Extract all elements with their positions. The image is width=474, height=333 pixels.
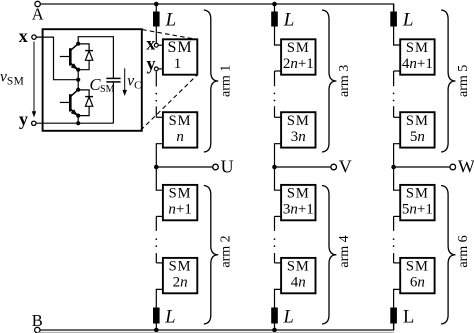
junction upper emitter node — [76, 68, 80, 72]
svg-text:arm 6: arm 6 — [456, 235, 471, 267]
junction top rail phase 2 — [272, 2, 277, 7]
svg-text:vC: vC — [127, 73, 141, 92]
svg-text:x: x — [19, 26, 28, 46]
svg-text:L: L — [283, 308, 294, 328]
junction midpoint phase 2 — [272, 165, 277, 170]
svg-text:4n+1: 4n+1 — [402, 56, 433, 72]
wire dash-dot arm 3 continuation — [274, 71, 276, 117]
wire inductor to SM 4n+1 input — [394, 27, 401, 46]
svg-text:5n: 5n — [410, 129, 425, 145]
submodule SM 4n — [281, 258, 315, 293]
arrow v_C — [122, 68, 127, 96]
submodule SM 5n — [400, 112, 434, 147]
node A terminal — [35, 1, 40, 6]
arrow v_SM — [32, 42, 36, 118]
svg-text:1: 1 — [174, 56, 182, 72]
brace arm 2 — [204, 186, 218, 325]
svg-text:arm 2: arm 2 — [219, 235, 234, 267]
node B terminal — [35, 327, 40, 332]
svg-text:L: L — [165, 9, 177, 30]
svg-text:A: A — [32, 5, 44, 24]
junction midpoint phase 1 — [154, 165, 159, 170]
svg-text:5n+1: 5n+1 — [402, 202, 433, 218]
terminal y of detail submodule — [32, 121, 36, 125]
callout dashed line bottom — [141, 75, 198, 130]
wire into SM 3n — [275, 116, 282, 118]
svg-text:3n: 3n — [291, 129, 306, 145]
terminal x of detail submodule — [32, 35, 36, 39]
wire SM 5n to midpoint junction to SM 5n+1 — [394, 144, 401, 191]
svg-text:arm 3: arm 3 — [337, 65, 352, 97]
svg-text:U: U — [221, 156, 234, 176]
wire phase 1 top rail to inductor — [155, 4, 157, 12]
junction lower emitter node — [76, 114, 80, 118]
wire inductor to SM 2n+1 input — [275, 27, 282, 46]
svg-text:B: B — [32, 311, 43, 330]
wire SM 5n+1 output stub — [394, 215, 401, 217]
capacitor C_SM — [78, 37, 120, 124]
junction top node — [76, 42, 80, 46]
svg-text:SM: SM — [287, 186, 310, 202]
svg-text:y: y — [147, 54, 156, 74]
wire x to midpoint — [36, 37, 78, 80]
diode D1 — [78, 44, 93, 70]
inductor L arm 4 — [271, 308, 294, 328]
wire bottom DC rail — [40, 324, 394, 331]
svg-text:L: L — [403, 308, 414, 328]
svg-text:SM: SM — [287, 113, 310, 129]
wire top DC rail — [40, 4, 393, 12]
submodule SM 5n+1 — [400, 185, 434, 220]
wire inductor to bottom rail phase 3 — [393, 324, 395, 331]
brace arm 4 — [322, 186, 336, 325]
submodule SM n+1 — [163, 185, 197, 220]
svg-text:vSM: vSM — [0, 68, 24, 87]
svg-text:V: V — [339, 156, 352, 176]
svg-text:x: x — [146, 34, 155, 54]
svg-text:2n: 2n — [173, 275, 188, 291]
bottom edge shadow line — [37, 331, 394, 333]
node U terminal — [213, 164, 219, 170]
svg-text:SM: SM — [406, 186, 429, 202]
wire dash-dot arm 5 continuation — [393, 71, 395, 117]
transistor Q1 upper IGBT — [60, 44, 78, 70]
svg-text:2n+1: 2n+1 — [283, 56, 314, 72]
svg-text:SM: SM — [169, 113, 192, 129]
brace arm 3 — [322, 10, 336, 152]
wire SM 6n to bottom inductor — [394, 289, 401, 307]
node V terminal — [331, 164, 337, 170]
wire SM 2n+1 output stub — [275, 70, 282, 72]
junction x midpoint node — [76, 78, 80, 82]
wire inductor L1 to SM 1 pin x — [155, 27, 157, 44]
junction y node — [76, 121, 80, 125]
callout dashed line top — [142, 30, 197, 40]
node W terminal — [450, 164, 456, 170]
svg-text:SM: SM — [287, 40, 310, 56]
wire dash-dot arm 1 continuation — [155, 71, 157, 117]
svg-text:3n+1: 3n+1 — [283, 202, 314, 218]
pin x of SM 1 — [154, 43, 162, 47]
svg-text:L: L — [402, 9, 414, 30]
inductor L arm 6 — [390, 308, 414, 328]
wire to terminal W — [394, 166, 450, 168]
wire phase 3 top rail to inductor — [393, 4, 395, 12]
svg-text:W: W — [458, 156, 474, 176]
detail box of submodule — [43, 29, 142, 131]
wire phase 2 top rail to inductor — [274, 4, 276, 12]
junction top rail phase 1 — [154, 2, 159, 7]
svg-text:L: L — [283, 9, 295, 30]
submodule SM 1 — [163, 39, 197, 75]
wire to terminal U — [156, 166, 212, 168]
inductor L arm 3 — [271, 9, 294, 30]
svg-text:SM: SM — [406, 113, 429, 129]
svg-text:arm 4: arm 4 — [337, 235, 352, 267]
wire SM 2n to bottom inductor — [156, 289, 163, 307]
svg-text:arm 5: arm 5 — [456, 65, 471, 97]
brace arm 5 — [441, 10, 455, 152]
svg-text:n: n — [176, 129, 184, 145]
svg-text:L: L — [164, 308, 175, 328]
wire dash-dot arm 6 continuation — [393, 216, 395, 263]
svg-text:SM: SM — [287, 259, 310, 275]
submodule SM 3n — [281, 112, 315, 147]
svg-text:SM: SM — [168, 39, 193, 56]
inductor L arm 2 — [153, 308, 176, 328]
wire dash-dot arm 4 continuation — [274, 216, 276, 263]
svg-text:4n: 4n — [291, 275, 306, 291]
wire dash-dot arm 2 continuation — [155, 216, 157, 263]
wire inductor to bottom rail phase 1 — [155, 324, 157, 331]
wire into SM 5n — [394, 116, 401, 118]
inductor L arm 1 — [153, 9, 176, 30]
wire inductor to bottom rail phase 2 — [274, 324, 276, 331]
wire into SM 4n — [275, 262, 282, 264]
svg-text:SM: SM — [169, 186, 192, 202]
submodule SM 4n+1 — [400, 39, 434, 74]
wire y bottom rail of submodule — [36, 122, 113, 124]
pin y of SM 1 — [154, 67, 162, 71]
junction lower collector node — [76, 88, 80, 92]
submodule SM n — [163, 112, 197, 147]
brace arm 6 — [441, 186, 455, 325]
wire SM n to midpoint junction to SM n+1 — [156, 144, 163, 191]
wire into SM 2n — [156, 262, 163, 264]
wire SM 4n to bottom inductor — [275, 289, 282, 307]
submodule SM 2n — [163, 258, 197, 293]
wire main column of half-bridge — [77, 70, 79, 90]
junction bottom rail phase 2 — [272, 328, 277, 333]
inductor L arm 5 — [390, 9, 413, 30]
wire SM 3n+1 output stub — [275, 215, 282, 217]
svg-text:SM: SM — [169, 259, 192, 275]
wire into SM n — [156, 116, 163, 118]
wire SM 3n to midpoint junction to SM 3n+1 — [275, 144, 282, 191]
wire SM 4n+1 output stub — [394, 70, 401, 72]
svg-text:SM: SM — [406, 259, 429, 275]
wire into SM 6n — [394, 262, 401, 264]
transistor Q2 lower IGBT — [60, 90, 78, 116]
svg-text:n+1: n+1 — [168, 202, 191, 218]
svg-text:6n: 6n — [410, 275, 425, 291]
svg-text:SM: SM — [406, 40, 429, 56]
wire SM n+1 output stub — [156, 215, 163, 217]
submodule SM 2n+1 — [281, 39, 315, 74]
wire to terminal V — [275, 166, 331, 168]
svg-text:arm 1: arm 1 — [219, 65, 234, 97]
wire lower column to y — [77, 116, 79, 124]
brace arm 1 — [204, 10, 218, 152]
submodule SM 3n+1 — [281, 185, 315, 220]
submodule SM 6n — [400, 258, 434, 293]
diode D2 — [78, 90, 93, 116]
junction midpoint phase 3 — [391, 165, 396, 170]
junction bottom rail phase 1 — [154, 328, 159, 333]
svg-text:y: y — [19, 109, 28, 129]
